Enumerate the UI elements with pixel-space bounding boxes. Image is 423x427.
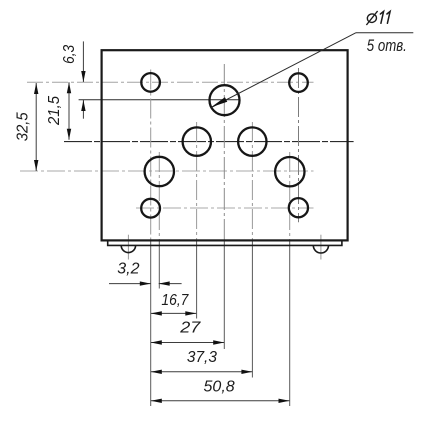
arrow 3,2 left-pointing [159, 281, 170, 285]
hole bottom-right small [289, 198, 308, 217]
svg-text:6,3: 6,3 [61, 45, 78, 64]
plate outline [102, 50, 348, 240]
leader arrowhead [211, 97, 227, 107]
arrow 21,5 down [67, 129, 71, 140]
centerline V2 lower-left big hole column [158, 152, 160, 240]
hole top-right small [289, 73, 308, 92]
plate bottom step [108, 241, 342, 245]
centerline H5 bottom small holes row [136, 207, 314, 209]
dimension 3,2 left tail [109, 283, 151, 285]
arrow 27 left [151, 340, 162, 344]
extension line V2 below plate to 3,2 [158, 240, 160, 289]
arrow 27 right [213, 340, 224, 344]
label diameter symbol [366, 11, 377, 25]
arrow 32,5 up [34, 83, 38, 94]
dimension 37,3 line [151, 371, 253, 373]
dimension 21,5 line [68, 82, 70, 140]
arrow 37,3 right [241, 370, 252, 374]
leader line to d11 hole [211, 33, 356, 108]
arrow 21,5 up [67, 82, 71, 93]
svg-text:50,8: 50,8 [204, 379, 235, 396]
centerline V7 right small holes column [298, 68, 300, 222]
hole top-left small [141, 73, 160, 92]
hole bottom-left small [141, 199, 160, 218]
hole lower-left big [145, 157, 174, 186]
dimension 6,3 upper tail [82, 41, 84, 82]
centerline V9 right bump [320, 235, 322, 260]
arrow 37,3 left [151, 370, 162, 374]
dimension 32,5 line [35, 83, 37, 171]
arrow 50,8 left [151, 399, 162, 403]
dimension 27 line [151, 342, 224, 344]
svg-text:3,2: 3,2 [117, 261, 139, 278]
centerline H4 lower big holes row [20, 170, 314, 172]
centerline H1 top small holes row [27, 81, 314, 83]
label 11 [380, 11, 390, 23]
arrow 16,7 right [185, 311, 196, 315]
right bump tab [313, 245, 328, 253]
extension line V1 below plate to 50,8 [150, 240, 152, 406]
leader shelf [356, 32, 413, 34]
centerline V6 lower-right big hole column [289, 152, 291, 240]
arrow 6,3 down [81, 71, 85, 82]
extension line V4 below plate to 27 [223, 240, 225, 349]
centerline H3 middle row [64, 141, 354, 143]
hole middle-left [183, 127, 211, 155]
svg-text:27: 27 [179, 320, 201, 337]
arrow 16,7 left [151, 311, 162, 315]
arrow 32,5 down [34, 160, 38, 171]
dimension 16,7 line [151, 312, 197, 314]
centerline V4 top big hole column [223, 64, 225, 240]
dimension 3,2 right tail [159, 283, 182, 285]
svg-text:32,5: 32,5 [14, 112, 31, 141]
left bump tab [121, 245, 135, 252]
extension line V3 below plate to 16,7 [196, 240, 198, 319]
extension line V5 below plate to 37,3 [251, 240, 253, 378]
centerline V5 middle-right big hole column [251, 122, 253, 240]
svg-text:21,5: 21,5 [46, 96, 63, 126]
hole lower-right big [275, 157, 304, 186]
dimension 50,8 line [151, 400, 290, 402]
hole d11 top-center [210, 85, 240, 115]
arrow 3,2 right-pointing [140, 281, 151, 285]
centerline H2 big hole row [79, 99, 240, 101]
hole middle-right [238, 127, 266, 155]
dimension 6,3 lower tail [82, 100, 84, 119]
svg-text:37,3: 37,3 [187, 349, 217, 366]
centerline V3 middle-left big hole column [196, 122, 198, 240]
extension line V6 below plate to 50,8 [289, 240, 291, 406]
centerline V8 left bump [127, 235, 129, 260]
svg-text:5 отв.: 5 отв. [367, 36, 407, 55]
centerline V1 left small holes column [150, 70, 152, 241]
arrow 50,8 right [279, 399, 290, 403]
arrow 6,3 up [81, 100, 85, 111]
svg-text:16,7: 16,7 [161, 292, 189, 309]
